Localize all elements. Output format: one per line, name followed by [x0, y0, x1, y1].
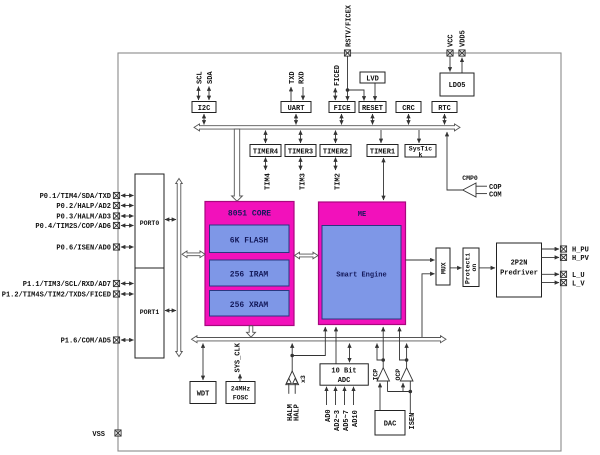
svg-text:Smart Engine: Smart Engine	[336, 272, 386, 280]
wire bus to TIMER1	[380, 130, 382, 143]
wire ICP to ME	[382, 327, 384, 360]
wire pin P0.3	[121, 215, 134, 217]
bus arrow core to bottom bus	[247, 326, 256, 337]
wire AD10 in	[353, 387, 355, 405]
wire pin P0.2	[121, 205, 134, 207]
svg-text:8051 CORE: 8051 CORE	[228, 210, 271, 219]
wire I2C to bus	[203, 114, 205, 125]
svg-text:P1.2/TIM4S/TIM2/TXDS/FICED: P1.2/TIM4S/TIM2/TXDS/FICED	[2, 292, 111, 300]
wire RXD into UART	[302, 87, 304, 100]
pin L_V	[560, 280, 566, 286]
wire RSTV to junction	[347, 56, 349, 90]
pin P1.6	[113, 337, 119, 343]
svg-text:10 Bit: 10 Bit	[331, 368, 356, 376]
svg-text:LVD: LVD	[366, 76, 379, 84]
wire LVD to RESET	[374, 84, 376, 101]
core instruction bus (vertical)	[232, 129, 243, 201]
wire pin P0.1	[121, 195, 134, 197]
svg-text:L_U: L_U	[572, 272, 585, 280]
svg-text:RTC: RTC	[438, 105, 451, 113]
svg-text:RESET: RESET	[362, 105, 383, 113]
svg-text:24MHz: 24MHz	[231, 386, 251, 393]
wire ICP out	[382, 360, 384, 368]
svg-text:TIMER3: TIMER3	[288, 149, 313, 157]
wire x3 to bus	[291, 344, 293, 356]
wire TIMER3 to bus	[300, 131, 302, 144]
bus arrow core to ME	[295, 252, 319, 259]
svg-text:DAC: DAC	[384, 421, 397, 429]
peripheral bus (top)	[194, 124, 460, 131]
svg-text:AD10: AD10	[352, 410, 360, 427]
svg-text:P0.2/HALP/AD2: P0.2/HALP/AD2	[56, 203, 111, 211]
node ISEN junction	[409, 390, 413, 394]
block TIMER1	[367, 145, 398, 157]
svg-text:OCP: OCP	[395, 369, 402, 381]
block PORT0	[135, 174, 164, 268]
svg-text:RXD: RXD	[299, 71, 307, 84]
svg-text:UART: UART	[288, 105, 305, 113]
wire FICE to bus	[341, 114, 343, 125]
wire CMP0 to bus	[447, 132, 463, 190]
svg-text:TIM2: TIM2	[334, 173, 342, 190]
block LDO5	[440, 73, 474, 96]
svg-text:TIM3: TIM3	[299, 173, 307, 190]
comparator CMP0	[462, 175, 501, 200]
svg-text:VSS: VSS	[92, 431, 105, 439]
pin P0.2	[113, 202, 119, 208]
svg-text:ADC: ADC	[338, 377, 351, 385]
svg-text:L_V: L_V	[572, 281, 585, 289]
wire ADC to bus	[349, 344, 351, 363]
pin H_PV	[560, 254, 566, 260]
wire ISEN to OCP right	[409, 382, 411, 392]
svg-text:SDA: SDA	[207, 71, 215, 84]
wire PORT1 to port bus	[165, 310, 176, 312]
svg-text:ME: ME	[358, 211, 366, 219]
block LVD	[360, 72, 385, 84]
svg-text:256 XRAM: 256 XRAM	[230, 301, 269, 310]
wire bus to MUX	[422, 274, 435, 337]
block 2P2N Predriver	[497, 243, 542, 297]
svg-text:ICP: ICP	[373, 369, 380, 381]
wire LDO5 to VDD5	[461, 58, 463, 73]
pin P1.1	[113, 280, 119, 286]
node x3 out	[290, 354, 294, 358]
block ME	[319, 202, 406, 325]
pin L_U	[560, 271, 566, 277]
wire OCP out	[406, 360, 408, 368]
wire ISEN to OCP left	[402, 383, 404, 392]
block 10 Bit ADC	[320, 364, 368, 385]
svg-text:P0.4/TIM2S/COP/AD6: P0.4/TIM2S/COP/AD6	[35, 223, 111, 231]
pin P0.1	[113, 192, 119, 198]
block FICE	[329, 102, 355, 114]
wire FICED to FICE	[334, 88, 336, 100]
wire pin P1.2	[121, 293, 134, 295]
wire CRC to bus	[408, 114, 410, 125]
wire x3 output	[291, 356, 293, 372]
pin RSTV/FICEX	[344, 50, 350, 56]
svg-text:TIM4: TIM4	[264, 173, 272, 190]
block Protection	[463, 248, 479, 287]
svg-text:H_PU: H_PU	[572, 247, 589, 255]
wire TIMER2 to bus	[335, 131, 337, 144]
wire ISEN up	[409, 392, 411, 414]
svg-text:VCC: VCC	[448, 34, 456, 47]
pin H_PU	[560, 246, 566, 252]
wire OCP to bus	[406, 344, 408, 361]
wire UART TXD out	[290, 87, 292, 101]
block MUX	[436, 248, 450, 285]
block 256 IRAM	[210, 260, 290, 286]
block 256 XRAM	[210, 291, 290, 317]
wire AD5~7 in	[344, 387, 346, 405]
svg-text:H_PV: H_PV	[572, 255, 590, 263]
svg-text:SYS_CLK: SYS_CLK	[234, 342, 242, 372]
svg-text:LDO5: LDO5	[449, 82, 466, 90]
wire pin P1.1	[121, 283, 134, 285]
wire SCL to I2C	[198, 87, 200, 101]
wire pin P0.6	[121, 246, 134, 248]
svg-text:P0.3/HALM/AD3: P0.3/HALM/AD3	[56, 214, 111, 222]
wire ISEN to ICP	[387, 382, 389, 392]
comparator OCP	[395, 368, 413, 381]
port data bus (vertical)	[176, 179, 183, 357]
wire junction to FICE	[347, 90, 349, 101]
svg-text:P1.6/COM/AD5: P1.6/COM/AD5	[61, 338, 111, 346]
wire AD2~3 in	[335, 387, 337, 405]
svg-text:P0.1/TIM4/SDA/TXD: P0.1/TIM4/SDA/TXD	[40, 193, 111, 201]
svg-text:TXD: TXD	[289, 71, 297, 84]
svg-text:AD2~3: AD2~3	[334, 410, 342, 431]
wire TIMER1 to ME	[383, 158, 385, 200]
svg-text:Predriver: Predriver	[500, 270, 538, 278]
svg-text:COM: COM	[489, 192, 502, 200]
svg-text:TIMER1: TIMER1	[370, 149, 395, 157]
wire TIMER4 to TIM4	[265, 158, 267, 171]
wire SDA to I2C	[208, 87, 210, 101]
svg-text:CMP0: CMP0	[462, 175, 478, 182]
svg-text:on: on	[471, 264, 478, 272]
wire RESET to bus	[372, 114, 374, 125]
block WDT	[190, 382, 216, 404]
wire WDT to bus	[202, 344, 204, 381]
wire PORT0 to port bus	[165, 219, 176, 221]
block TIMER4	[250, 145, 281, 157]
block 8051 CORE	[205, 202, 294, 326]
svg-text:6K FLASH: 6K FLASH	[230, 237, 269, 246]
svg-text:TIMER2: TIMER2	[323, 149, 348, 157]
block 6K FLASH	[210, 225, 290, 253]
svg-text:FICE: FICE	[334, 105, 351, 113]
svg-text:I2C: I2C	[198, 105, 211, 113]
node OCP out	[405, 358, 409, 362]
svg-text:2P2N: 2P2N	[511, 260, 528, 268]
node ICP out	[381, 358, 385, 362]
svg-text:256 IRAM: 256 IRAM	[230, 271, 269, 280]
pin VSS	[115, 430, 121, 436]
bus arrow port-bus to core	[182, 251, 205, 258]
svg-text:P0.6/ISEN/AD0: P0.6/ISEN/AD0	[56, 245, 111, 253]
wire VCC to LDO5	[449, 56, 451, 71]
svg-text:x3: x3	[300, 375, 307, 383]
wire ME to MUX	[406, 259, 435, 261]
svg-text:k: k	[419, 152, 423, 159]
wire Protection to Predriver	[479, 267, 495, 269]
svg-text:VDD5: VDD5	[460, 30, 468, 47]
pin VCC	[447, 50, 453, 56]
wire ISEN net horizontal	[388, 391, 411, 393]
svg-text:HALP: HALP	[294, 404, 302, 421]
svg-text:ISEN: ISEN	[409, 413, 417, 430]
block PORT1	[135, 268, 164, 358]
wire TIMER4 to bus	[265, 131, 267, 144]
block Smart Engine	[322, 226, 401, 320]
wire TIMER2 to TIM2	[335, 158, 337, 171]
pin P0.3	[113, 213, 119, 219]
pin P0.6	[113, 244, 119, 250]
wire MUX to Protection	[450, 267, 462, 269]
pin P1.2	[113, 291, 119, 297]
wire bus to SysTick	[418, 130, 420, 143]
wire FOSC SYS_CLK	[239, 374, 241, 381]
wire TIMER3 to TIM3	[300, 158, 302, 171]
block DAC	[375, 411, 405, 436]
wire Predriver to H_PU	[542, 248, 560, 250]
chip boundary	[118, 53, 561, 451]
wire RTC to bus	[444, 114, 446, 125]
wire AD0 in	[326, 387, 328, 405]
wire Predriver to H_PV	[542, 256, 560, 258]
svg-text:SCL: SCL	[197, 71, 205, 84]
wire ADC to ME	[335, 327, 337, 364]
block CRC	[396, 102, 421, 114]
svg-text:FICED: FICED	[334, 65, 342, 86]
svg-text:FOSC: FOSC	[233, 395, 249, 402]
node RSTV junction	[346, 88, 350, 92]
wire ICP to bus	[377, 344, 383, 361]
svg-text:PORT1: PORT1	[140, 309, 160, 316]
block I2C	[192, 102, 216, 114]
svg-text:RSTV/FICEX: RSTV/FICEX	[346, 4, 354, 47]
svg-text:PORT0: PORT0	[140, 220, 160, 227]
wire junction to RESET	[348, 90, 365, 101]
wire pin P0.4	[121, 225, 134, 227]
block SysTick	[405, 145, 436, 159]
svg-text:P1.1/TIM3/SCL/RXD/AD7: P1.1/TIM3/SCL/RXD/AD7	[23, 281, 111, 289]
pin P0.4	[113, 222, 119, 228]
block TIMER3	[285, 145, 316, 157]
svg-text:TIMER4: TIMER4	[253, 149, 278, 157]
wire Predriver to L_U	[542, 273, 560, 275]
pin arrow HALP	[293, 378, 298, 394]
wire pin P1.6	[121, 339, 134, 341]
svg-text:AD5~7: AD5~7	[343, 410, 351, 431]
svg-text:MUX: MUX	[441, 262, 448, 274]
block UART	[281, 102, 311, 114]
block TIMER2	[320, 145, 351, 157]
svg-text:CRC: CRC	[402, 105, 415, 113]
comparator ICP	[373, 368, 390, 381]
wire OCP to ME	[400, 327, 407, 360]
svg-text:WDT: WDT	[197, 391, 210, 399]
amplifier x3	[286, 371, 307, 385]
svg-text:AD0: AD0	[325, 409, 333, 422]
block RESET	[359, 102, 386, 114]
wire UART to bus	[295, 114, 297, 125]
block 24MHz FOSC	[226, 382, 255, 404]
wire DAC to ICP	[379, 383, 381, 411]
wire Predriver to L_V	[542, 282, 560, 284]
block RTC	[432, 102, 457, 114]
pin VDD5	[459, 50, 465, 56]
peripheral bus (bottom)	[192, 336, 447, 343]
wire x3 to ME	[292, 327, 325, 356]
pin arrow HALM	[286, 378, 291, 394]
